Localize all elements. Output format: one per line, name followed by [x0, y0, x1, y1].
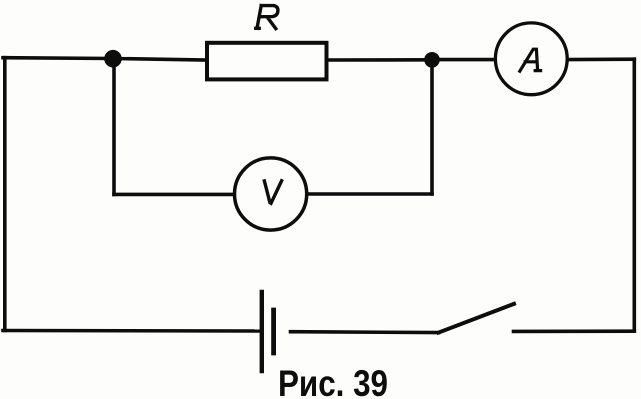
wire ammeter to right corner: [568, 57, 634, 61]
battery BT1 short plate: [271, 310, 276, 353]
svg-text:Рис. 39: Рис. 39: [278, 363, 388, 399]
node A drop wire (to voltmeter branch): [112, 59, 116, 195]
node A junction dot: [104, 50, 122, 68]
wire bottom-left horizontal (to battery): [3, 329, 259, 333]
wire resistor to node B: [328, 58, 432, 62]
node B junction dot: [424, 52, 440, 68]
battery BT1 long plate: [260, 292, 264, 371]
wire left vertical (source to node A side): [3, 58, 7, 331]
resistor R1 body: [207, 43, 327, 80]
wire voltmeter branch left horizontal: [114, 193, 233, 197]
ammeter A1 circle: [495, 23, 567, 95]
wire right vertical: [632, 59, 636, 331]
label R (resistor value): [256, 6, 278, 29]
wire battery to switch: [291, 330, 439, 334]
wire top-left horizontal (node A to resistor): [3, 58, 206, 60]
wire node B drop (to voltmeter branch): [430, 60, 434, 194]
wire node B to ammeter: [432, 58, 495, 62]
voltmeter V1 circle: [235, 158, 307, 230]
wire bottom-right (switch contact to right corner): [514, 329, 635, 333]
wire voltmeter branch right horizontal: [308, 192, 432, 196]
switch S1 lever (open): [439, 304, 515, 333]
label A (ammeter): [520, 49, 541, 71]
label V (voltmeter): [264, 181, 281, 204]
